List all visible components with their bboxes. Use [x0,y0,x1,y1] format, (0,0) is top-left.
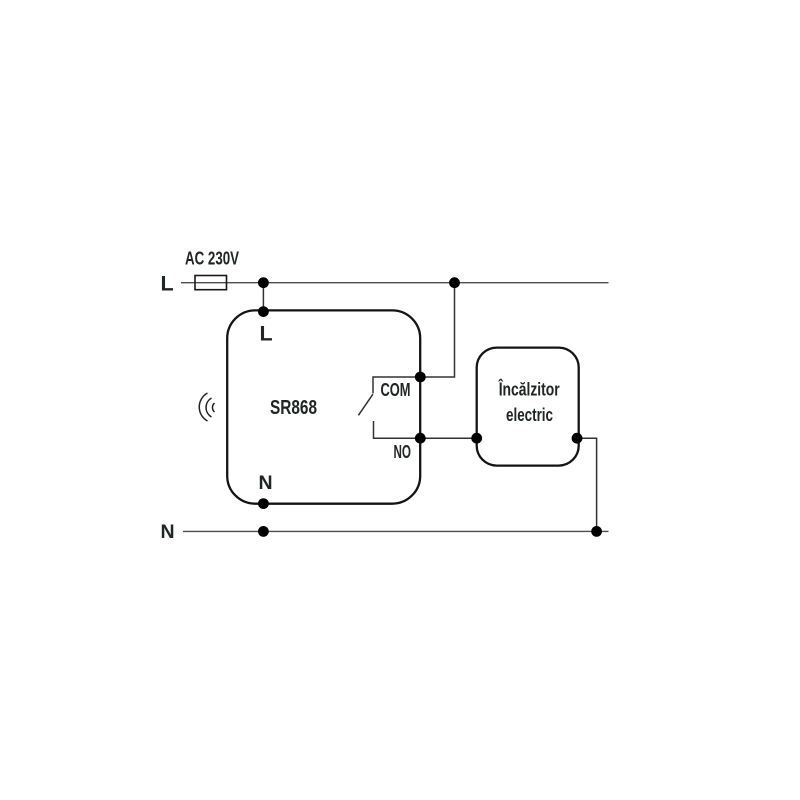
svg-text:Încălzitor: Încălzitor [498,379,560,400]
svg-text:NO: NO [394,442,412,462]
svg-text:SR868: SR868 [270,396,317,419]
svg-text:N: N [259,472,273,494]
svg-text:COM: COM [381,380,411,400]
svg-text:electric: electric [506,404,553,425]
svg-text:N: N [161,521,175,543]
svg-text:AC 230V: AC 230V [185,248,239,269]
svg-text:L: L [260,322,273,346]
svg-text:L: L [161,272,174,296]
